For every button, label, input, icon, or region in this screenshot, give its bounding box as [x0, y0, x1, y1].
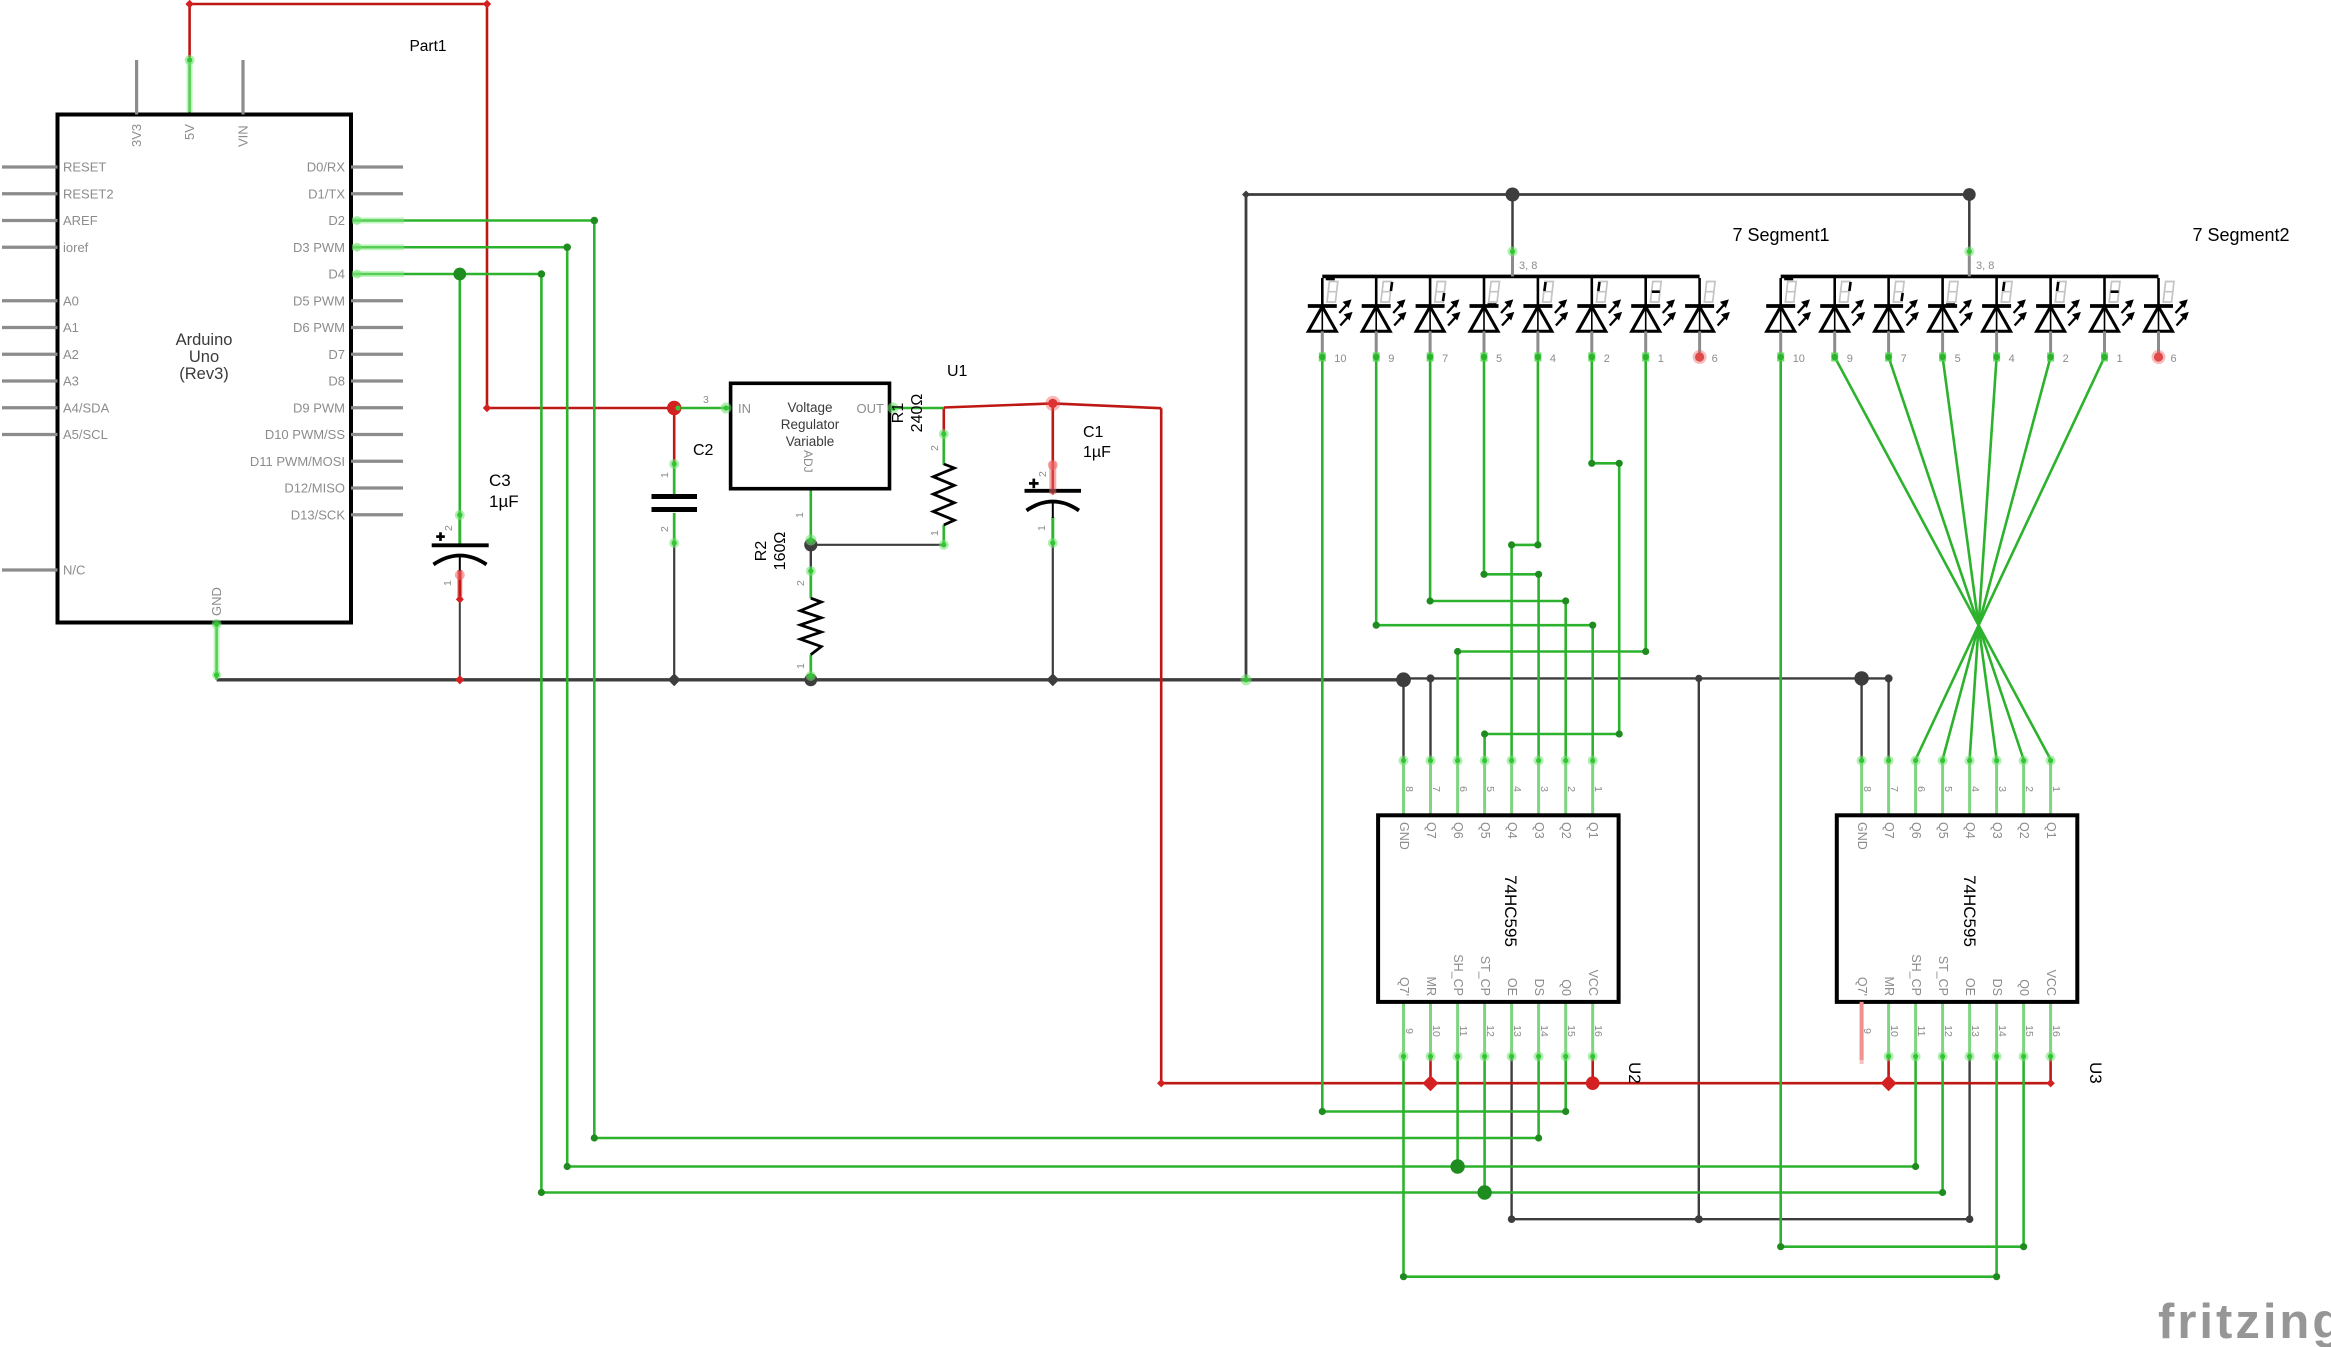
svg-text:4: 4	[1550, 353, 1556, 365]
svg-text:2: 2	[2063, 353, 2069, 365]
arduino pin A4/SDA	[2, 406, 58, 409]
wire OE ground drop	[1698, 678, 1700, 1219]
wire U2 GND to bus	[1402, 680, 1404, 760]
green bend	[1939, 1189, 1946, 1196]
svg-text:14: 14	[1538, 1025, 1550, 1037]
svg-text:11: 11	[1915, 1026, 1927, 1037]
svg-text:Uno: Uno	[189, 348, 219, 366]
svg-text:Q7: Q7	[1882, 822, 1896, 839]
svg-text:16: 16	[2050, 1025, 2062, 1037]
capacitor C2	[652, 494, 698, 499]
wire 7seg1 pin10 to U2 Q0	[1322, 357, 1565, 1112]
svg-text:3: 3	[703, 394, 709, 406]
svg-text:(Rev3): (Rev3)	[179, 365, 229, 383]
wire C2 pin1 leg	[673, 464, 676, 494]
wire D4 to ST_CP chain	[352, 274, 1943, 1193]
svg-text:Q7: Q7	[1424, 822, 1438, 839]
dark bends/junctions	[1242, 191, 1250, 199]
svg-text:Q7': Q7'	[1397, 977, 1411, 996]
svg-text:D2: D2	[328, 213, 345, 228]
svg-text:2: 2	[1604, 353, 1610, 365]
wire C3 pin2 leg	[458, 512, 461, 545]
junction C3 ground red	[455, 675, 464, 684]
arduino pin D11 PWM/MOSI	[351, 460, 403, 463]
arduino pin 3V3	[135, 60, 138, 115]
LED 7seg1 segment pin 5	[1483, 278, 1486, 306]
svg-text:A3: A3	[63, 374, 79, 389]
junction D4 ST_CP	[1477, 1185, 1491, 1199]
green bend	[1616, 460, 1623, 467]
svg-text:Q2: Q2	[2017, 822, 2031, 839]
arduino pin D13/SCK	[351, 513, 403, 516]
svg-text:DS: DS	[1532, 979, 1546, 996]
shift register U2 74HC595 body	[1402, 760, 1405, 816]
red bus corner right	[2046, 1079, 2054, 1087]
svg-text:2: 2	[795, 580, 807, 586]
arduino pin A2	[2, 353, 58, 356]
svg-text:8: 8	[1861, 786, 1873, 792]
svg-text:GND: GND	[209, 587, 224, 616]
svg-text:4: 4	[1969, 786, 1981, 792]
svg-text:12: 12	[1942, 1025, 1954, 1037]
voltage regulator U1 body	[731, 383, 890, 488]
wire 7seg1 pin4 to U2 Q4	[1512, 357, 1538, 760]
junction C2 IN	[667, 401, 681, 415]
green bend	[1616, 730, 1623, 737]
svg-text:C2: C2	[693, 442, 714, 459]
wire 5V pin	[188, 57, 191, 115]
svg-text:VIN: VIN	[236, 125, 251, 147]
svg-text:Q1: Q1	[2044, 822, 2058, 839]
svg-text:2: 2	[2023, 786, 2035, 792]
svg-text:VCC: VCC	[1586, 970, 1600, 996]
svg-text:RESET2: RESET2	[63, 186, 114, 201]
svg-text:Q0: Q0	[2017, 979, 2031, 996]
red bus corner	[1157, 1079, 1165, 1087]
wire regulator IN segment	[674, 407, 730, 410]
wire C1 to ground	[1052, 545, 1054, 680]
svg-text:3V3: 3V3	[129, 124, 144, 147]
wire U2 SH_CP drop	[1456, 1057, 1459, 1166]
svg-text:1: 1	[795, 663, 807, 669]
7 Segment2 display	[1781, 275, 2159, 279]
arduino pin AREF	[2, 219, 58, 222]
svg-text:2: 2	[1565, 786, 1577, 792]
svg-text:Q4: Q4	[1963, 822, 1977, 839]
wire regulator OUT segment	[890, 407, 944, 410]
wire U3 MR to red bus	[1887, 1057, 1890, 1083]
wire OE chain U2-U3	[1512, 1057, 1970, 1219]
wire U2 Q7p to U3 DS	[1404, 1057, 1997, 1276]
svg-text:10: 10	[1793, 353, 1805, 365]
svg-text:1: 1	[1592, 786, 1604, 792]
arduino pin D1/TX	[351, 192, 403, 195]
svg-text:1: 1	[929, 530, 941, 536]
svg-text:1: 1	[442, 580, 454, 586]
green bend	[591, 1134, 598, 1141]
svg-text:7: 7	[1442, 353, 1448, 365]
svg-text:OE: OE	[1963, 978, 1977, 996]
wire display common top bus	[1246, 195, 1969, 680]
svg-text:Q5: Q5	[1478, 822, 1492, 839]
arduino pin D7	[351, 353, 403, 356]
shift register U3 74HC595 body	[1860, 760, 1863, 816]
svg-text:ST_CP: ST_CP	[1936, 956, 1950, 996]
green bend	[1480, 571, 1487, 578]
wire 7seg2 pin4 to U3 Q4	[1970, 357, 1997, 760]
junction D4 C3	[453, 268, 466, 281]
green bend	[564, 1163, 571, 1170]
svg-text:D11 PWM/MOSI: D11 PWM/MOSI	[250, 454, 345, 469]
svg-text:SH_CP: SH_CP	[1909, 954, 1923, 996]
svg-text:7 Segment2: 7 Segment2	[2192, 225, 2289, 245]
wire ground bus left segment	[217, 678, 1404, 681]
svg-text:8: 8	[1403, 786, 1415, 792]
svg-text:Q7': Q7'	[1855, 977, 1869, 996]
svg-text:5V: 5V	[182, 124, 197, 140]
junction U3 MR red	[1881, 1075, 1897, 1091]
arduino pin RESET	[2, 165, 58, 168]
LED 7seg1 segment pin 1	[1644, 278, 1647, 306]
wire U3 GND to bus	[1860, 678, 1862, 759]
svg-text:C3: C3	[489, 471, 511, 490]
svg-text:D6 PWM: D6 PWM	[293, 320, 345, 335]
svg-text:D12/MISO: D12/MISO	[284, 481, 345, 496]
svg-text:R1: R1	[890, 403, 907, 424]
wire D2 to U2 DS	[352, 221, 1539, 1139]
wire U2 VCC to red bus	[1591, 1057, 1594, 1083]
svg-text:Part1: Part1	[409, 38, 446, 55]
wire C2 pin2 leg	[673, 513, 676, 545]
svg-text:VCC: VCC	[2044, 970, 2058, 996]
svg-text:10: 10	[1430, 1025, 1442, 1037]
green bend	[1481, 730, 1488, 737]
wire R1 pin1 leg	[942, 525, 945, 546]
wire display2 common drop	[1968, 195, 1971, 253]
green bend	[1535, 1134, 1542, 1141]
wire C3 to ground	[459, 599, 461, 679]
green bend	[1427, 597, 1434, 604]
arduino pin A3	[2, 379, 58, 382]
svg-text:U2: U2	[1625, 1062, 1644, 1084]
wire 7seg2 pin7 to U3 Q2	[1889, 357, 2024, 760]
svg-text:A2: A2	[63, 347, 79, 362]
wire 7seg2 pin9 to U3 Q1	[1835, 357, 2051, 760]
wire U2 Q7 to bus	[1429, 678, 1431, 759]
svg-text:2: 2	[659, 526, 671, 532]
svg-text:7 Segment1: 7 Segment1	[1732, 225, 1829, 245]
svg-text:5: 5	[1484, 786, 1496, 792]
svg-text:1µF: 1µF	[489, 492, 519, 511]
wire C1 pin1 leg	[1051, 517, 1054, 545]
wire C2 to ground	[673, 545, 675, 680]
svg-text:10: 10	[1334, 353, 1346, 365]
green bend	[1319, 1108, 1326, 1115]
junction U2 MR red	[1423, 1075, 1439, 1091]
svg-text:13: 13	[1511, 1025, 1523, 1037]
svg-text:Arduino: Arduino	[176, 331, 233, 349]
svg-text:MR: MR	[1882, 977, 1896, 996]
LED 7seg1 segment pin 6	[1698, 278, 1701, 306]
wire 5V feed top	[190, 4, 675, 408]
svg-text:1: 1	[1036, 525, 1048, 531]
svg-text:2: 2	[443, 525, 455, 531]
green end on bus	[1241, 674, 1252, 685]
wire 7seg1 pin7 to U2 Q2	[1430, 357, 1566, 760]
svg-text:14: 14	[1996, 1025, 2008, 1037]
LED 7seg1 segment pin 9	[1375, 278, 1378, 306]
svg-text:74HC595: 74HC595	[1960, 875, 1979, 947]
svg-text:Q5: Q5	[1936, 822, 1950, 839]
svg-text:Variable: Variable	[786, 434, 835, 449]
svg-text:5: 5	[1942, 786, 1954, 792]
LED 7seg2 segment pin 1	[2103, 278, 2106, 306]
LED 7seg1 segment pin 10	[1321, 278, 1324, 306]
svg-text:3, 8: 3, 8	[1976, 260, 1994, 272]
svg-text:IN: IN	[738, 401, 751, 416]
svg-text:D1/TX: D1/TX	[308, 186, 345, 201]
svg-text:D3 PWM: D3 PWM	[293, 240, 345, 255]
svg-text:C1: C1	[1083, 424, 1104, 441]
svg-text:3: 3	[1538, 786, 1550, 792]
svg-text:AREF: AREF	[63, 213, 98, 228]
wire VCC red bus	[1161, 408, 2050, 1083]
svg-text:Q0: Q0	[1559, 979, 1573, 996]
svg-text:3, 8: 3, 8	[1519, 260, 1537, 272]
junction C1 top	[1048, 399, 1057, 408]
resistor R2 160ohm	[800, 598, 821, 654]
wire 7seg2 pin2 to U3 Q5	[1943, 357, 2051, 760]
arduino pin D0/RX	[351, 165, 403, 168]
arduino pin D5 PWM	[351, 299, 403, 302]
svg-text:ioref: ioref	[63, 240, 89, 255]
svg-text:1: 1	[794, 512, 806, 518]
wire 7seg2 pin1 to U3 Q6	[1916, 357, 2105, 760]
svg-text:ST_CP: ST_CP	[1478, 956, 1492, 996]
arduino pin ioref	[2, 246, 58, 249]
svg-text:N/C: N/C	[63, 563, 85, 578]
svg-text:4: 4	[2009, 353, 2015, 365]
svg-text:SH_CP: SH_CP	[1451, 954, 1465, 996]
wire 7seg1 pin2 to U2 Q5	[1485, 357, 1620, 760]
LED 7seg2 segment pin 7	[1887, 278, 1890, 306]
svg-text:7: 7	[1430, 786, 1442, 792]
svg-text:9: 9	[1403, 1028, 1415, 1034]
wire U3 Q7 to bus	[1887, 678, 1889, 759]
wire ground bus right segment	[1404, 677, 1889, 679]
svg-text:1: 1	[1658, 353, 1664, 365]
green bend	[1993, 1273, 2000, 1280]
svg-text:GND: GND	[1397, 822, 1411, 850]
svg-text:A0: A0	[63, 293, 79, 308]
green bend	[1373, 622, 1380, 629]
LED 7seg1 segment pin 2	[1591, 278, 1594, 306]
green bend	[1562, 1108, 1569, 1115]
svg-text:3: 3	[1996, 786, 2008, 792]
svg-text:D13/SCK: D13/SCK	[291, 507, 346, 522]
svg-text:9: 9	[1847, 353, 1853, 365]
red bend	[185, 0, 193, 8]
LED 7seg1 segment pin 7	[1429, 278, 1432, 306]
green bend	[1642, 648, 1649, 655]
LED 7seg2 segment pin 5	[1941, 278, 1944, 306]
svg-text:5: 5	[1955, 353, 1961, 365]
green bend	[1454, 648, 1461, 655]
svg-text:1: 1	[659, 472, 671, 478]
svg-text:6: 6	[1915, 786, 1927, 792]
svg-text:U3: U3	[2086, 1062, 2105, 1084]
svg-text:160Ω: 160Ω	[772, 532, 789, 571]
green bend	[1588, 460, 1595, 467]
wire R2 top segment	[810, 545, 812, 570]
arduino pin D8	[351, 379, 403, 382]
7seg1 common stem	[1511, 252, 1514, 276]
LED 7seg2 segment pin 10	[1779, 278, 1782, 306]
wire 7seg1 pin5 to U2 Q3	[1484, 357, 1539, 760]
svg-text:11: 11	[1457, 1026, 1469, 1037]
svg-text:GND: GND	[1855, 822, 1869, 850]
arduino pin N/C	[2, 568, 58, 571]
svg-text:2: 2	[929, 445, 941, 451]
svg-text:Regulator: Regulator	[781, 417, 840, 432]
svg-text:16: 16	[1592, 1025, 1604, 1037]
svg-text:7: 7	[1888, 786, 1900, 792]
LED 7seg2 segment pin 4	[1995, 278, 1998, 306]
svg-text:6: 6	[1712, 353, 1718, 365]
bend C3 red	[456, 595, 464, 603]
green bend	[1508, 541, 1515, 548]
svg-text:D9 PWM: D9 PWM	[293, 400, 345, 415]
svg-text:240Ω: 240Ω	[909, 394, 926, 433]
wire R2 ADJ junction to R1	[811, 544, 944, 546]
arduino pin D10 PWM/SS	[351, 433, 403, 436]
wire R1 pin2 leg	[942, 433, 945, 465]
wire C3 pin1 red leg	[457, 570, 462, 599]
wire regulator ADJ leg	[809, 489, 812, 542]
svg-text:D7: D7	[328, 347, 345, 362]
green bend	[538, 1189, 545, 1196]
svg-text:D0/RX: D0/RX	[307, 160, 346, 175]
wire GND pin to bus	[215, 622, 218, 680]
svg-text:7: 7	[1901, 353, 1907, 365]
arduino pin VIN	[241, 60, 244, 115]
wire R2 pin1 leg	[809, 655, 812, 680]
svg-text:1: 1	[2117, 353, 2123, 365]
green bend	[1400, 1273, 1407, 1280]
svg-text:6: 6	[1457, 786, 1469, 792]
U3 Q7' unconnected stub	[1860, 1002, 1864, 1060]
LED 7seg2 segment pin 9	[1833, 278, 1836, 306]
resistor R1 240ohm	[933, 464, 954, 525]
green bend	[1912, 1163, 1919, 1170]
svg-text:1µF: 1µF	[1083, 444, 1111, 461]
green bend	[1562, 597, 1569, 604]
svg-text:Q3: Q3	[1532, 822, 1546, 839]
arduino pin A5/SCL	[2, 433, 58, 436]
svg-text:2: 2	[1037, 471, 1049, 477]
svg-text:Q4: Q4	[1505, 822, 1519, 839]
arduino U Part1 body	[58, 115, 352, 623]
junction U2 VCC red	[1586, 1076, 1600, 1090]
wire D4 junction to C3	[458, 274, 461, 545]
svg-text:10: 10	[1888, 1025, 1900, 1037]
wire D3 to SH_CP chain	[352, 247, 1916, 1166]
arduino pin A0	[2, 299, 58, 302]
svg-text:Q2: Q2	[1559, 822, 1573, 839]
wire 7seg2 pin5 to U3 Q3	[1943, 357, 1997, 760]
svg-text:D8: D8	[328, 374, 345, 389]
arduino pin D6 PWM	[351, 326, 403, 329]
green bend	[1534, 541, 1541, 548]
wire 7seg1 pin1 to U2 Q6	[1458, 357, 1646, 760]
svg-text:A4/SDA: A4/SDA	[63, 400, 110, 415]
7 Segment1 display	[1322, 275, 1699, 279]
svg-text:5: 5	[1496, 353, 1502, 365]
LED 7seg1 segment pin 4	[1537, 278, 1540, 306]
arduino pin D12/MISO	[351, 486, 403, 489]
svg-text:fritzing: fritzing	[2158, 1295, 2331, 1347]
7seg2 common stem	[1968, 252, 1971, 276]
wire display1 common drop	[1511, 195, 1514, 252]
arduino pin RESET2	[2, 192, 58, 195]
LED 7seg2 segment pin 6	[2157, 278, 2160, 306]
svg-text:9: 9	[1388, 353, 1394, 365]
svg-text:Voltage: Voltage	[787, 400, 832, 415]
svg-text:DS: DS	[1990, 979, 2004, 996]
svg-text:4: 4	[1511, 786, 1523, 792]
wire R1 top red segment	[942, 408, 945, 436]
svg-text:RESET: RESET	[63, 160, 106, 175]
wire R2 pin2 leg	[809, 570, 812, 598]
arduino pin A1	[2, 326, 58, 329]
svg-text:D5 PWM: D5 PWM	[293, 293, 345, 308]
arduino pin D9 PWM	[351, 406, 403, 409]
svg-text:Q1: Q1	[1586, 822, 1600, 839]
wire C2 top red segment	[673, 408, 676, 464]
svg-text:D4: D4	[328, 267, 345, 282]
svg-text:15: 15	[1565, 1025, 1577, 1037]
svg-text:Q6: Q6	[1451, 822, 1465, 839]
svg-text:OUT: OUT	[857, 401, 885, 416]
svg-text:Q6: Q6	[1909, 822, 1923, 839]
green bend	[1589, 622, 1596, 629]
red bend	[483, 404, 491, 412]
wire C1 top red segment	[1052, 403, 1055, 494]
svg-text:D10 PWM/SS: D10 PWM/SS	[265, 427, 346, 442]
red bend	[483, 0, 491, 8]
svg-text:13: 13	[1969, 1025, 1981, 1037]
svg-text:ADJ: ADJ	[801, 450, 815, 473]
green bend	[2020, 1243, 2027, 1250]
wire regulator OUT to C1 to bus corner	[944, 403, 1161, 408]
svg-text:15: 15	[2023, 1025, 2035, 1037]
svg-text:MR: MR	[1424, 977, 1438, 996]
green bend	[1777, 1243, 1784, 1250]
junction D3 SH_CP	[1450, 1159, 1464, 1173]
svg-text:74HC595: 74HC595	[1501, 875, 1520, 947]
svg-text:Q3: Q3	[1990, 822, 2004, 839]
capacitor C1 1uF	[1025, 489, 1082, 493]
svg-text:U1: U1	[947, 363, 968, 380]
capacitor C3 1uF	[432, 543, 489, 547]
svg-text:OE: OE	[1505, 978, 1519, 996]
svg-text:A1: A1	[63, 320, 79, 335]
green bends D2/D3/D4	[591, 217, 599, 225]
wire U2 ST_CP drop	[1483, 1057, 1486, 1192]
svg-text:A5/SCL: A5/SCL	[63, 427, 108, 442]
wire 7seg1 pin9 to U2 Q1	[1376, 357, 1593, 760]
wire 7seg2 pin10 to U3 Q0	[1781, 357, 2024, 1247]
